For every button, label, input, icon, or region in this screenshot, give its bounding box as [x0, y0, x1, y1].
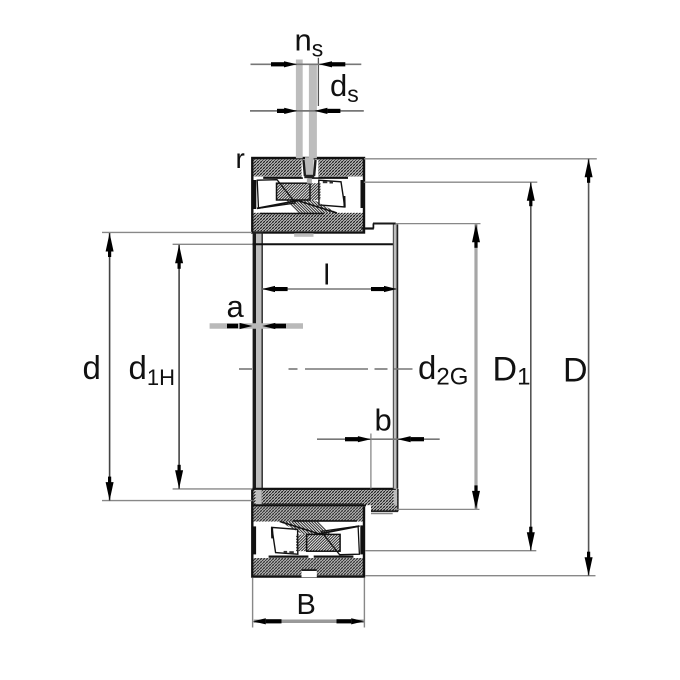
svg-text:D: D	[563, 352, 588, 390]
svg-text:a: a	[227, 289, 245, 324]
svg-text:l: l	[324, 260, 330, 292]
svg-text:d: d	[83, 349, 101, 386]
svg-text:B: B	[297, 589, 316, 621]
svg-text:r: r	[236, 143, 245, 174]
svg-text:b: b	[375, 403, 392, 438]
